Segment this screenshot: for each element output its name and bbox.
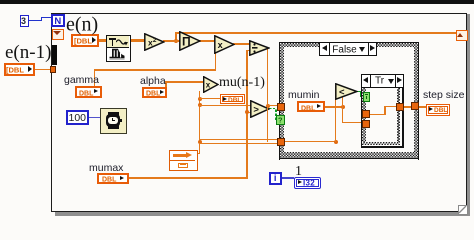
svg-text:Π: Π — [182, 35, 191, 49]
svg-text:<: < — [339, 87, 345, 98]
svg-text:x: x — [218, 39, 223, 49]
svg-text:>: > — [253, 104, 259, 115]
svg-text:2: 2 — [153, 36, 157, 43]
svg-text:x: x — [205, 80, 210, 89]
